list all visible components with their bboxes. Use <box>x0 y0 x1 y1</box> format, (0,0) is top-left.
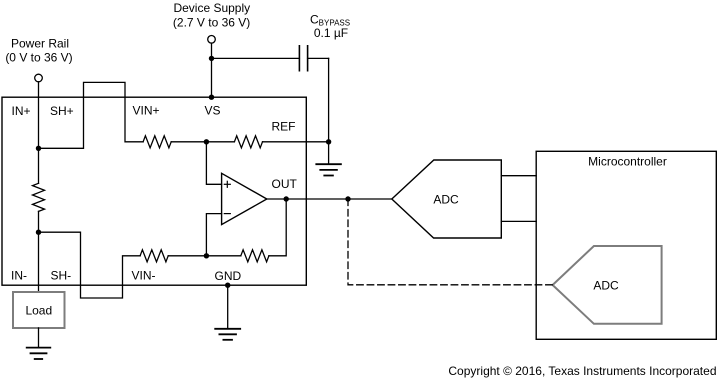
wire SH- loop <box>39 232 141 298</box>
wire REF out <box>263 141 329 143</box>
svg-text:GND: GND <box>215 269 242 283</box>
ADC 1 block <box>392 160 502 238</box>
op-amp U2 <box>222 173 267 224</box>
terminal Power Rail <box>35 74 43 82</box>
svg-text:Microcontroller: Microcontroller <box>588 155 667 169</box>
svg-text:ADC: ADC <box>593 278 619 292</box>
node REF junction <box>326 139 331 144</box>
node minus junction <box>204 253 209 258</box>
wire capacitor down to ground <box>328 58 330 164</box>
wire capacitor to down <box>308 57 329 59</box>
load box <box>13 292 65 328</box>
svg-text:(2.7 V to 36 V): (2.7 V to 36 V) <box>173 15 250 29</box>
label Power Rail <box>5 37 72 65</box>
wire load to ground <box>38 328 40 348</box>
microcontroller box <box>536 151 716 339</box>
label Device Supply <box>173 1 250 29</box>
resistor R1 VIN+ <box>143 136 171 148</box>
wire shunt to load <box>38 211 40 292</box>
wire power rail vertical IN+ <box>38 82 40 184</box>
wire plus input <box>206 142 221 185</box>
node SH- junction <box>36 230 41 235</box>
svg-text:IN-: IN- <box>11 269 27 283</box>
svg-text:IN+: IN+ <box>12 104 31 118</box>
amplifier device box U1 <box>2 97 306 285</box>
node OUT junction <box>284 196 289 201</box>
wire supply to capacitor <box>212 57 300 59</box>
ground GND <box>215 329 240 340</box>
node OUT dashed junction <box>345 196 350 201</box>
node VS pin <box>209 95 214 100</box>
ADC 2 block <box>553 246 662 324</box>
ground Load <box>27 348 51 359</box>
resistor R3 VIN- <box>140 250 168 262</box>
svg-text:SH-: SH- <box>51 269 72 283</box>
node SH+ junction <box>36 146 41 151</box>
wire R3 to R4 <box>168 255 241 257</box>
opamp minus sign <box>224 213 230 215</box>
svg-text:REF: REF <box>272 120 296 134</box>
capacitor C_BYPASS <box>299 46 307 71</box>
node supply junction <box>209 56 214 61</box>
resistor R2 REF <box>234 136 262 148</box>
svg-text:Load: Load <box>25 303 52 317</box>
terminal Device Supply <box>208 36 216 44</box>
svg-text:(0 V to 36 V): (0 V to 36 V) <box>5 51 72 65</box>
node plus-input junction <box>204 139 209 144</box>
wire minus input <box>206 214 221 256</box>
resistor R4 feedback <box>241 250 269 262</box>
wire dashed OUT to ADC2 <box>348 199 553 285</box>
svg-text:VIN+: VIN+ <box>133 104 160 118</box>
wire SH+ loop <box>39 82 144 148</box>
svg-text:Power Rail: Power Rail <box>11 37 69 51</box>
label C_BYPASS value <box>310 12 350 40</box>
wire feedback to OUT <box>269 199 286 256</box>
wire bus line 1 <box>502 175 537 177</box>
svg-text:Device Supply: Device Supply <box>173 1 250 15</box>
wire OUT <box>267 198 392 200</box>
wire R1 to R2 <box>171 141 234 143</box>
opamp plus sign <box>224 181 230 187</box>
svg-text:0.1 µF: 0.1 µF <box>314 26 348 40</box>
resistor R_shunt <box>33 183 45 211</box>
wire bus line 2 <box>502 220 537 222</box>
ground REF <box>316 164 341 175</box>
svg-text:VS: VS <box>205 104 221 118</box>
svg-text:VIN-: VIN- <box>132 269 156 283</box>
node GND pin <box>225 283 230 288</box>
svg-text:OUT: OUT <box>272 177 298 191</box>
wire GND pin to ground <box>227 285 229 329</box>
svg-text:Copyright © 2016, Texas Instru: Copyright © 2016, Texas Instruments Inco… <box>448 364 716 378</box>
wire supply to VS <box>211 43 213 97</box>
svg-text:SH+: SH+ <box>50 104 74 118</box>
svg-text:ADC: ADC <box>433 193 459 207</box>
